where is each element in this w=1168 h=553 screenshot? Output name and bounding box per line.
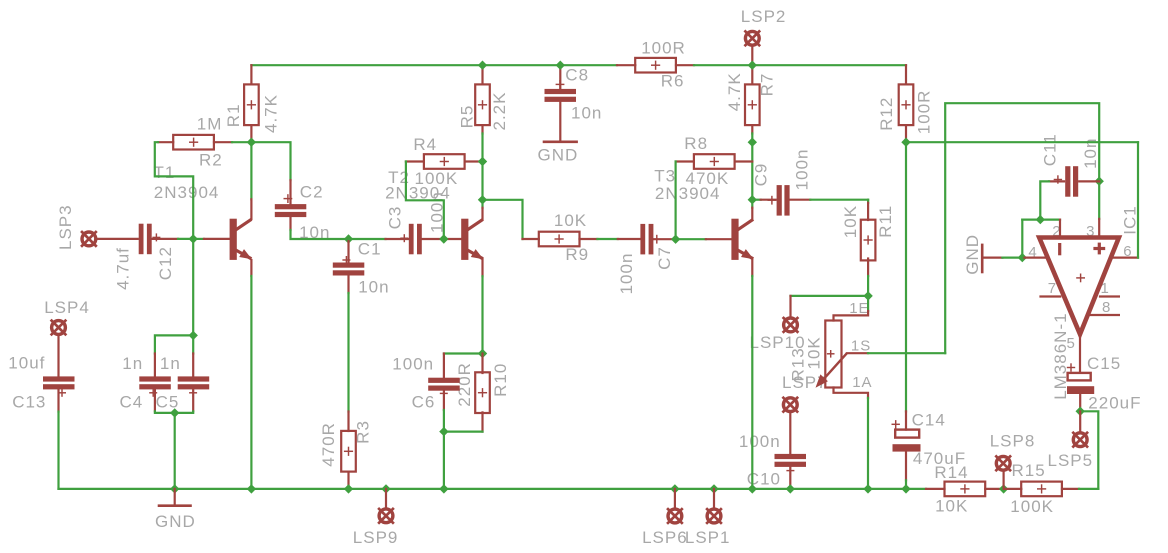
svg-text:10K: 10K xyxy=(805,336,824,369)
svg-text:T1: T1 xyxy=(154,163,176,182)
svg-text:1M: 1M xyxy=(197,114,223,133)
svg-text:1A: 1A xyxy=(852,374,872,391)
svg-text:LSP6: LSP6 xyxy=(642,528,688,547)
svg-text:4.7uf: 4.7uf xyxy=(114,247,133,290)
svg-text:R8: R8 xyxy=(684,134,708,153)
svg-text:C3: C3 xyxy=(386,206,405,230)
svg-text:R12: R12 xyxy=(877,97,896,131)
svg-text:T3: T3 xyxy=(654,167,676,186)
svg-text:1n: 1n xyxy=(122,354,143,373)
svg-text:C1: C1 xyxy=(358,240,382,259)
svg-text:R2: R2 xyxy=(199,150,223,169)
svg-text:LSP3: LSP3 xyxy=(56,204,75,250)
svg-text:5: 5 xyxy=(1067,335,1076,352)
svg-text:2N3904: 2N3904 xyxy=(154,183,220,202)
svg-text:2.2K: 2.2K xyxy=(490,92,509,131)
svg-text:LSP1: LSP1 xyxy=(685,528,731,547)
svg-text:470R: 470R xyxy=(319,422,338,467)
svg-text:4.7K: 4.7K xyxy=(725,72,744,111)
svg-text:100R: 100R xyxy=(915,90,934,135)
svg-text:10K: 10K xyxy=(841,205,860,238)
svg-text:C11: C11 xyxy=(1041,133,1060,166)
svg-text:220uF: 220uF xyxy=(1088,394,1141,413)
svg-text:C15: C15 xyxy=(1087,354,1121,373)
svg-text:C7: C7 xyxy=(655,246,674,270)
svg-text:8: 8 xyxy=(1102,299,1111,316)
svg-text:4.7K: 4.7K xyxy=(262,94,281,133)
svg-text:7: 7 xyxy=(1048,280,1057,297)
svg-text:LSP9: LSP9 xyxy=(353,528,399,547)
svg-text:R6: R6 xyxy=(661,72,685,91)
svg-text:10uf: 10uf xyxy=(8,354,45,373)
svg-text:10n: 10n xyxy=(571,104,602,123)
svg-text:LSP8: LSP8 xyxy=(990,432,1036,451)
svg-text:LSP5: LSP5 xyxy=(1048,451,1094,470)
svg-text:R1: R1 xyxy=(224,103,243,127)
svg-text:10n: 10n xyxy=(358,278,389,297)
svg-text:C6: C6 xyxy=(412,392,436,411)
svg-text:1n: 1n xyxy=(160,354,181,373)
svg-text:100R: 100R xyxy=(641,38,686,57)
svg-text:C8: C8 xyxy=(565,65,589,84)
svg-text:C12: C12 xyxy=(156,246,175,280)
svg-text:10K: 10K xyxy=(935,497,968,516)
svg-text:C13: C13 xyxy=(12,393,46,412)
svg-text:100n: 100n xyxy=(793,148,812,190)
svg-text:LSP2: LSP2 xyxy=(741,7,787,26)
svg-text:GND: GND xyxy=(538,146,579,165)
svg-text:R4: R4 xyxy=(413,135,437,154)
svg-text:1S: 1S xyxy=(851,338,871,355)
svg-text:R9: R9 xyxy=(565,245,589,264)
svg-text:100K: 100K xyxy=(1010,497,1054,516)
svg-text:R10: R10 xyxy=(491,363,510,397)
svg-text:10K: 10K xyxy=(554,211,587,230)
svg-text:R15: R15 xyxy=(1012,461,1046,480)
svg-text:2N3904: 2N3904 xyxy=(655,184,721,203)
svg-text:GND: GND xyxy=(963,234,982,275)
svg-text:220R: 220R xyxy=(455,362,474,407)
svg-text:C4: C4 xyxy=(120,393,144,412)
svg-text:IC1: IC1 xyxy=(1121,205,1140,234)
svg-text:C2: C2 xyxy=(300,182,324,201)
svg-text:100n: 100n xyxy=(739,432,781,451)
svg-text:GND: GND xyxy=(155,512,196,531)
svg-text:C5: C5 xyxy=(156,393,180,412)
svg-text:R14: R14 xyxy=(934,463,968,482)
svg-text:LSP4: LSP4 xyxy=(44,298,90,317)
svg-text:100n: 100n xyxy=(392,355,434,374)
svg-text:R5: R5 xyxy=(457,105,476,129)
svg-text:R11: R11 xyxy=(876,205,895,238)
svg-text:C14: C14 xyxy=(912,411,946,430)
svg-text:C9: C9 xyxy=(751,163,770,187)
svg-text:100n: 100n xyxy=(617,253,636,295)
